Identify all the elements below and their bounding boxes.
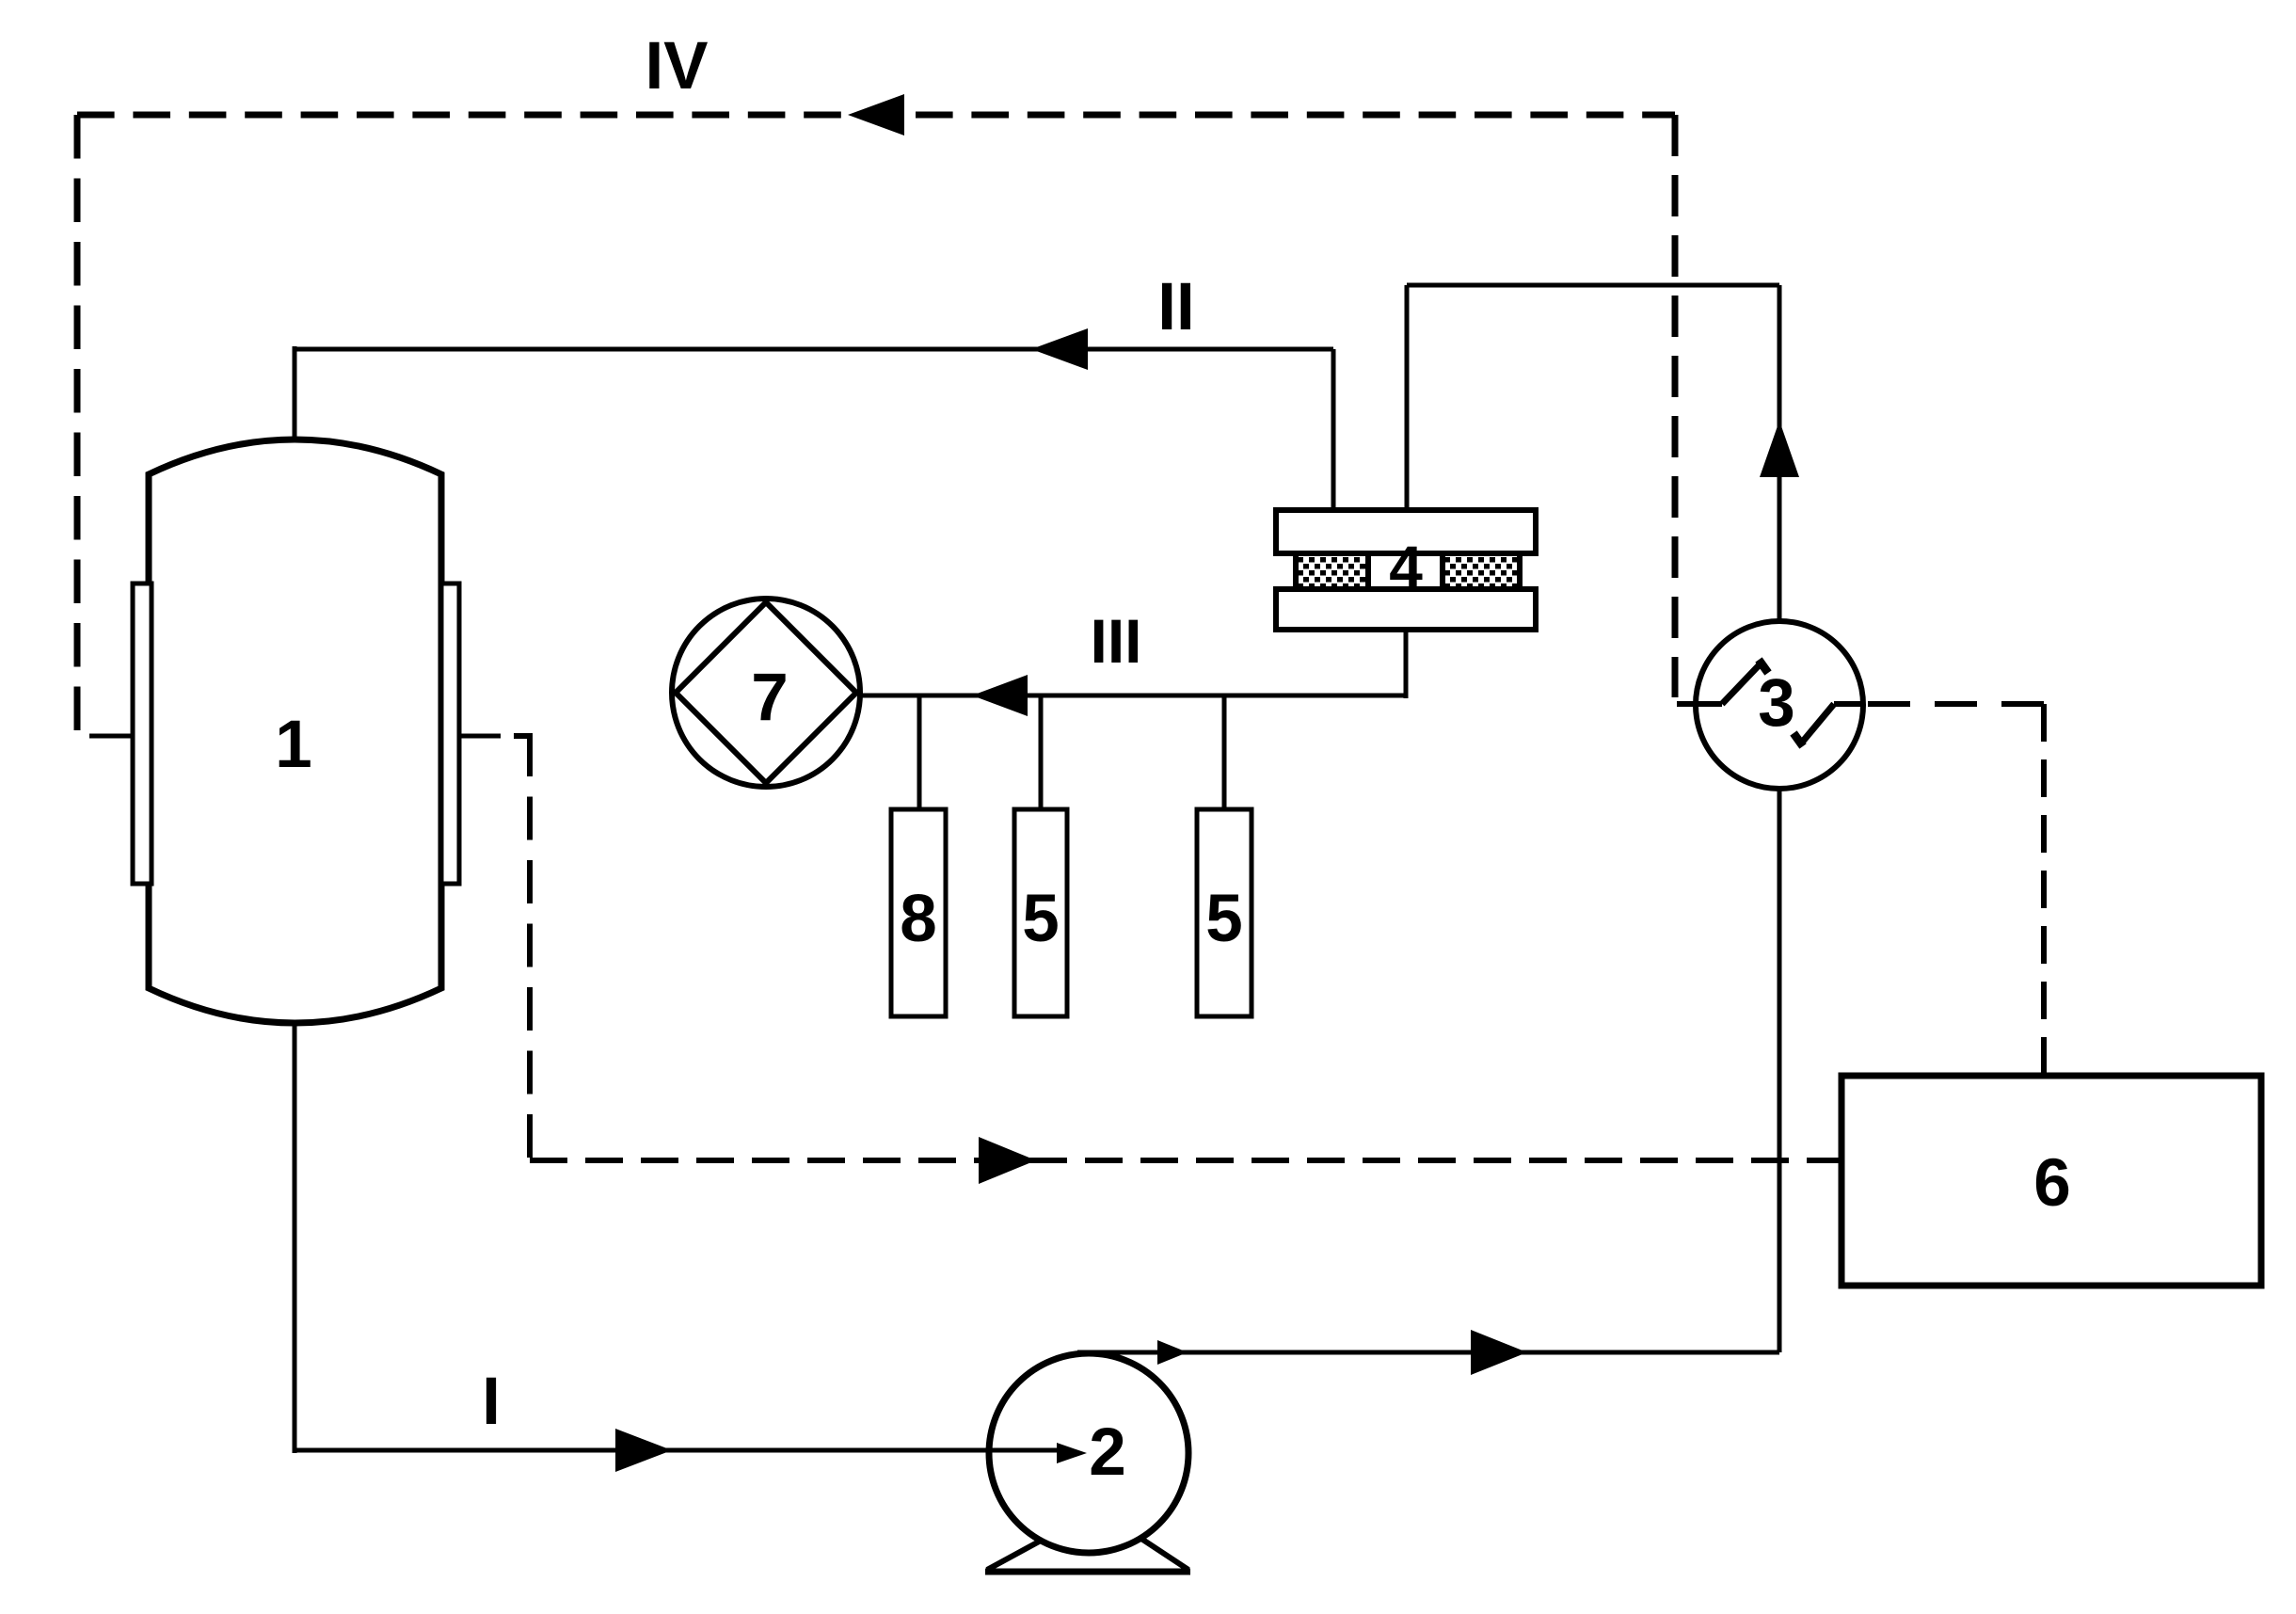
wire: tank 1 top pipe [293,346,297,444]
svg-text:7: 7 [751,661,789,735]
arrow on stream II pointing left [1031,328,1088,370]
wire: drop to first cylinder 5 [1039,695,1044,809]
svg-text:6: 6 [2033,1146,2071,1221]
svg-text:8: 8 [900,882,937,956]
wire: dashed recycle line IV top horizontal [77,112,1675,119]
pump 2 right foot [1141,1539,1188,1570]
wire: dashed line heat exchanger 3 to box 6 vertical [2041,704,2047,1076]
arrow on dashed line pointing right [979,1137,1036,1184]
pump 7 diamond [676,602,856,783]
pump 7 circle [672,599,860,787]
svg-text:1: 1 [275,708,312,782]
vessel 1 left stub [89,734,133,739]
wire: vertical from heat exchanger 3 up to top line [1778,285,1782,623]
wire: dash connecting tank 1 right stub to vertical [514,733,533,739]
filter 4 right membrane [1443,553,1520,589]
heat exchanger 3 circle [1696,621,1863,789]
pump 2 left foot [987,1541,1041,1570]
wire: stream I line from tank 1 to pump 2 [295,1448,1057,1453]
vessel 1 left flange [133,583,151,884]
arrow on stream III pointing left [972,675,1028,716]
pump 2 base line [985,1569,1190,1575]
filter 4 bottom plate [1276,589,1536,630]
cylinder 8 [891,809,946,1016]
heat exchanger 3 right stub [1834,701,1863,707]
wire: filter 4 bottom pipe [1404,630,1409,698]
wire: tank 1 bottom pipe [293,1023,297,1453]
vessel 1 body [149,439,441,1023]
arrow pointing up on heat exchanger riser [1760,421,1799,477]
wire: top line from heat exchanger 3 to filter 4 [1407,283,1779,288]
wire: dashed line heat exchanger 3 to box 6 horizontal [1868,701,2044,707]
wire: dashed line IV right vertical from heat exchanger 3 [1672,115,1679,697]
arrow on stream I pointing right [615,1429,672,1472]
heat exchanger 3 left stub [1677,701,1722,707]
wire: drop to cylinder 8 [917,695,922,809]
wire: vertical from pump 2 discharge up to heat exchanger 3 [1778,787,1782,1352]
heat exchanger 3 left diagonal with arrow tip [1722,663,1762,704]
svg-text:III: III [1090,606,1141,676]
svg-text:4: 4 [1389,534,1423,601]
wire: dashed line to box 6 horizontal [530,1158,1842,1163]
svg-text:II: II [1157,270,1194,344]
wire: stream III line from filter 4 to pump 7 [856,694,1406,698]
cylinder 5 first [1014,809,1067,1016]
controller box 6 [1842,1076,2261,1286]
wire: filter 4 left top pipe [1331,349,1336,510]
filter 4 top plate [1276,510,1536,553]
wire: stream II line from filter 4 to tank 1 [295,347,1333,352]
arrow on discharge line pointing right [1471,1330,1527,1375]
small arrow on pump 2 discharge [1157,1340,1188,1365]
vessel 1 right flange [441,583,459,884]
svg-text:I: I [482,1365,501,1439]
wire: pump 2 discharge line [1077,1350,1779,1355]
svg-text:IV: IV [645,29,708,104]
wire: dashed line from tank 1 right stub vertical [527,733,533,1160]
wire: dashed line IV left vertical to tank 1 [74,115,81,731]
svg-text:2: 2 [1089,1415,1126,1490]
wire: drop to second cylinder 5 [1222,695,1227,809]
pump 2 circle [989,1353,1188,1553]
svg-text:5: 5 [1022,882,1060,956]
wire: filter 4 right top pipe [1405,285,1410,510]
cylinder 5 second [1197,809,1252,1016]
svg-text:3: 3 [1758,666,1795,741]
small arrow into pump 2 [984,1448,1057,1453]
filter 4 left membrane [1296,553,1368,589]
vessel 1 right stub [459,734,501,739]
heat exchanger 3 right diagonal with arrow tip [1801,704,1834,743]
svg-text:5: 5 [1205,882,1243,956]
arrow on line IV pointing left [848,94,904,136]
